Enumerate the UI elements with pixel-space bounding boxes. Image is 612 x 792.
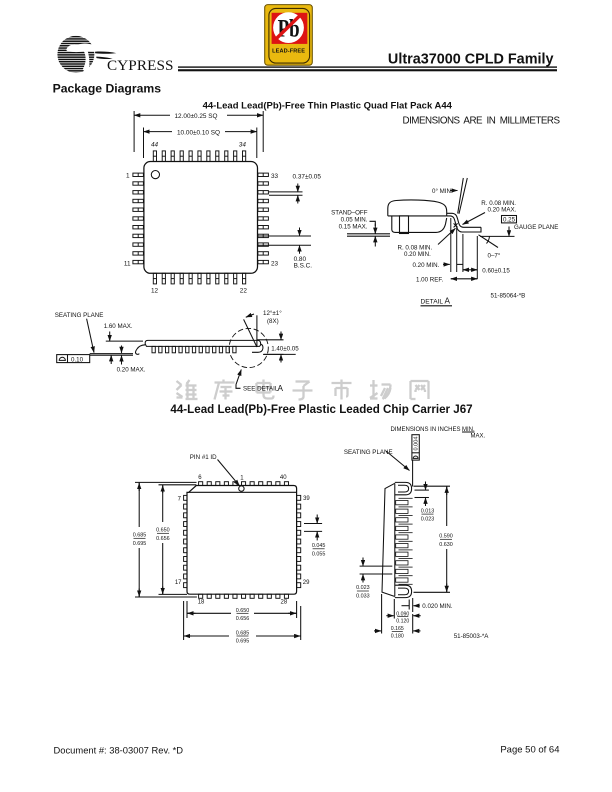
0 deg min leader arrow [451, 190, 458, 192]
1.60 ext line (body top) [106, 340, 143, 342]
PLCC left pin column [184, 495, 187, 587]
flatness symbol [59, 357, 65, 360]
seating plane leader [386, 451, 410, 471]
svg-text:0.630: 0.630 [439, 542, 453, 548]
dim 12.00 SQ dimension line with arrows [134, 114, 170, 116]
knee tangent X mark [454, 223, 458, 227]
QFP package body outline [144, 162, 258, 274]
PLCC bottom pin row [199, 594, 289, 598]
svg-text:0.023: 0.023 [421, 517, 435, 523]
vertical flatness datum box [412, 435, 419, 460]
vertical dim line foot end [476, 236, 478, 279]
svg-text:Document #: 38-03007 Rev. *D: Document #: 38-03007 Rev. *D [54, 745, 184, 756]
svg-text:0.656: 0.656 [156, 536, 170, 542]
svg-text:PIN #1 ID: PIN #1 ID [190, 454, 217, 461]
svg-text:STAND–OFF: STAND–OFF [331, 210, 368, 217]
svg-text:10.00±0.10 SQ: 10.00±0.10 SQ [177, 129, 220, 136]
PLCC top pin row [199, 482, 289, 486]
0.25 gauge box [502, 216, 517, 223]
cypress tree trunk (white) [83, 50, 90, 73]
vertical dim line foot start [462, 234, 464, 272]
svg-text:B.S.C.: B.S.C. [294, 262, 313, 269]
see detail leader [236, 370, 241, 385]
svg-text:12.00±0.25 SQ: 12.00±0.25 SQ [175, 113, 218, 120]
0.60 dim line [463, 269, 477, 271]
detail A lower molding outline [392, 216, 447, 233]
svg-text:DETAIL: DETAIL [421, 298, 444, 305]
svg-text:0.004: 0.004 [414, 437, 420, 451]
HEADER [53, 5, 561, 127]
svg-text:1: 1 [126, 173, 130, 180]
0-7 deg arc [487, 236, 490, 243]
svg-text:51-85064-*B: 51-85064-*B [491, 292, 526, 299]
svg-text:0.25: 0.25 [503, 217, 516, 224]
dim 0.80 BSC arrows [299, 228, 301, 237]
seating plane vertical line [412, 460, 414, 486]
dim 10.00 SQ extension line left [143, 128, 145, 159]
DIAGRAM 2 : PLCC top view [133, 454, 326, 645]
QFP bottom pin row (pins 12-22) [153, 273, 245, 284]
svg-text:1.60 MAX.: 1.60 MAX. [104, 323, 133, 330]
bottom outer dim 0.685/0.695 [183, 601, 185, 640]
gauge plane line [480, 235, 515, 237]
svg-text:0.033: 0.033 [356, 594, 370, 600]
package body slab [145, 340, 260, 346]
QFP right pin row (pins 33-23) [258, 173, 269, 264]
QFP pin 1 index circle [151, 171, 159, 179]
svg-text:0.685: 0.685 [236, 631, 250, 637]
svg-text:SEE DETAIL: SEE DETAIL [243, 386, 279, 393]
svg-text:0.20 MAX.: 0.20 MAX. [117, 367, 146, 374]
dim 12.00 SQ extension line right [262, 111, 264, 152]
lead comb rects [396, 501, 408, 583]
Pb-free logo [265, 5, 313, 66]
svg-text:44-Lead Lead(Pb)-Free Plastic: 44-Lead Lead(Pb)-Free Plastic Leaded Chi… [170, 403, 472, 416]
1.60 arrow down [109, 332, 111, 342]
seating plane line left [90, 353, 133, 355]
12 deg arrow [246, 314, 254, 317]
1.00 REF dim line [451, 278, 455, 280]
QFP top pin row (pins 44-34) [153, 151, 245, 162]
R max leader [463, 213, 486, 225]
svg-text:44: 44 [151, 142, 159, 149]
side view pin bumps [152, 346, 236, 352]
detail A stand-off leg [400, 216, 409, 234]
1.40 ext line top [257, 339, 284, 341]
cypress tree canopy (white) [66, 44, 114, 53]
dim 0.090/0.120 [393, 599, 395, 619]
svg-text:0.695: 0.695 [236, 639, 250, 645]
svg-text:LEAD-FREE: LEAD-FREE [272, 49, 305, 55]
0 deg min angle lines [458, 178, 464, 214]
left inner vertical dim 0.650/0.656 [162, 485, 164, 522]
svg-text:0.650: 0.650 [156, 528, 170, 534]
dim 0.165/0.180 [381, 594, 383, 634]
flatness datum box [57, 355, 90, 363]
dim 0.37 lead width lines [269, 191, 303, 193]
dim 12.00 SQ extension line left [133, 111, 135, 152]
svg-text:0.15 MAX.: 0.15 MAX. [339, 224, 368, 231]
svg-text:0.10: 0.10 [71, 356, 84, 363]
svg-text:11: 11 [124, 260, 131, 267]
svg-text:1.40±0.05: 1.40±0.05 [271, 346, 299, 353]
0-7 deg slant line [479, 235, 499, 248]
svg-text:0.013: 0.013 [421, 508, 435, 514]
0.20 arrow up pair [121, 355, 123, 364]
svg-text:12: 12 [151, 287, 159, 294]
12 deg slant line [244, 319, 257, 347]
svg-text:MAX.: MAX. [471, 434, 486, 440]
PLCC right pin column [297, 495, 301, 587]
svg-text:44-Lead Lead(Pb)-Free Thin Pla: 44-Lead Lead(Pb)-Free Thin Plastic Quad … [203, 101, 453, 112]
PLCC pin1 notch circle [239, 486, 244, 491]
dim 0.80 BSC lines [258, 235, 311, 237]
svg-text:0.685: 0.685 [133, 533, 147, 539]
top-left ext lines [135, 481, 197, 483]
svg-text:Page 50 of 64: Page 50 of 64 [500, 745, 559, 756]
dim 0.590/0.630 vertical [414, 485, 451, 487]
detail A lead S-bend top edge [447, 213, 481, 227]
svg-text:33: 33 [271, 173, 279, 180]
svg-text:39: 39 [303, 496, 310, 502]
gauge offset arrow [508, 227, 510, 237]
1.40 arrows [280, 332, 282, 340]
DIAGRAM 1b : Detail A [331, 178, 558, 306]
PIN 1 ID leader [218, 460, 240, 486]
svg-text:(8X): (8X) [267, 318, 279, 325]
svg-text:GAUGE PLANE: GAUGE PLANE [514, 224, 558, 231]
svg-text:Ultra37000 CPLD Family: Ultra37000 CPLD Family [388, 51, 554, 67]
stand-off seating lines [347, 233, 390, 235]
svg-text:22: 22 [240, 287, 248, 294]
left outer vertical dim 0.685/0.695 [138, 482, 140, 527]
package body right edge [394, 483, 396, 596]
svg-text:0.180: 0.180 [391, 634, 404, 640]
svg-text:34: 34 [239, 142, 247, 149]
svg-text:SEATING PLANE: SEATING PLANE [344, 449, 393, 456]
svg-text:0.650: 0.650 [236, 608, 250, 614]
DIAGRAM 1 : QFP top view [124, 111, 321, 294]
stand-off leader elbow [370, 221, 376, 226]
svg-text:40: 40 [280, 475, 287, 481]
WATERMARK [177, 380, 429, 400]
svg-text:0.590: 0.590 [439, 534, 453, 540]
svg-text:28: 28 [281, 600, 288, 606]
svg-text:0.656: 0.656 [236, 616, 250, 622]
header double rule [178, 66, 557, 67]
svg-text:0.37±0.05: 0.37±0.05 [293, 174, 322, 181]
svg-text:CYPRESS: CYPRESS [107, 57, 174, 74]
PLCC inner step line [189, 491, 297, 493]
svg-text:DIMENSIONS IN INCHES: DIMENSIONS IN INCHES [391, 427, 461, 433]
svg-text:1.00 REF.: 1.00 REF. [416, 276, 443, 283]
dim 0.023/0.033 left lines [360, 565, 393, 567]
12 deg angle vertical line [256, 315, 258, 347]
detail A lead plane top line [388, 215, 447, 217]
svg-text:0° MIN.: 0° MIN. [432, 188, 453, 195]
right pitch dim 0.045/0.055 [304, 523, 322, 525]
1.40 ext line bottom [264, 353, 284, 355]
swoosh tail strokes (black) [95, 52, 116, 54]
right end lead foot [252, 344, 263, 352]
svg-text:A: A [278, 384, 284, 393]
vertical dim line bend start [456, 228, 458, 272]
svg-text:0.20 MIN.: 0.20 MIN. [413, 262, 440, 269]
svg-text:0.20 MAX.: 0.20 MAX. [488, 206, 517, 213]
DIAGRAM 1c : side view [55, 310, 300, 393]
svg-text:12°±1°: 12°±1° [263, 310, 282, 317]
FOOTER [54, 745, 560, 756]
svg-text:Package Diagrams: Package Diagrams [53, 82, 162, 96]
svg-text:0.023: 0.023 [356, 585, 370, 591]
svg-text:0.055: 0.055 [312, 551, 326, 557]
dim 10.00 SQ dimension line with arrows [144, 131, 173, 133]
dashed detail circle [229, 328, 268, 367]
dim 10.00 SQ extension line right [256, 128, 258, 159]
bottom lead curl [395, 585, 412, 597]
dim 0.37 arrows [297, 184, 299, 192]
svg-text:0.60±0.15: 0.60±0.15 [482, 268, 510, 275]
detail A body upper molding outline [388, 200, 447, 216]
svg-text:29: 29 [303, 580, 310, 586]
svg-text:DIMENSIONS ARE IN MILLIMETERS: DIMENSIONS ARE IN MILLIMETERS [403, 116, 561, 127]
stand-off arrow down [374, 224, 376, 234]
bottom-left ext lines [135, 596, 197, 598]
svg-text:0.020 MIN.: 0.020 MIN. [422, 603, 453, 610]
PLCC body outline with chamfered pin-1 corner [187, 486, 297, 595]
cypress logo globe stripes [56, 36, 96, 74]
svg-text:0.045: 0.045 [312, 543, 326, 549]
svg-text:0.05 MIN.: 0.05 MIN. [341, 217, 368, 224]
DIAGRAM 2b : PLCC side view [344, 427, 489, 640]
detail A lead S-bend bottom edge [447, 216, 481, 232]
bottom inner dim 0.650/0.656 [186, 601, 188, 618]
svg-text:18: 18 [198, 600, 205, 606]
dim 0.013/0.021 lines [415, 489, 429, 491]
dim 0.020 MIN [408, 600, 410, 610]
svg-text:23: 23 [271, 260, 279, 267]
svg-text:A: A [445, 297, 451, 306]
R min leader [438, 228, 456, 244]
1.60 arrow up [110, 355, 112, 364]
svg-text:51-85003-*A: 51-85003-*A [454, 633, 490, 640]
package left slant outline [382, 483, 395, 596]
svg-text:0.20 MIN.: 0.20 MIN. [404, 251, 431, 258]
QFP left pin row (pins 1-11) [133, 173, 144, 264]
svg-text:0–7°: 0–7° [488, 253, 501, 260]
vertical dim line from knee left [450, 218, 452, 272]
top lead curl [395, 482, 412, 494]
svg-text:17: 17 [175, 580, 182, 586]
seating plane line right [263, 353, 296, 355]
svg-text:0.695: 0.695 [133, 541, 147, 547]
lead comb lines [399, 498, 413, 584]
svg-text:0.120: 0.120 [396, 619, 409, 625]
0.20 MIN arrow [443, 263, 450, 265]
stand-off arrow up [374, 236, 376, 246]
svg-text:SEATING PLANE: SEATING PLANE [55, 312, 104, 319]
left end lead hook [135, 345, 145, 355]
seating plane leader [87, 319, 94, 353]
